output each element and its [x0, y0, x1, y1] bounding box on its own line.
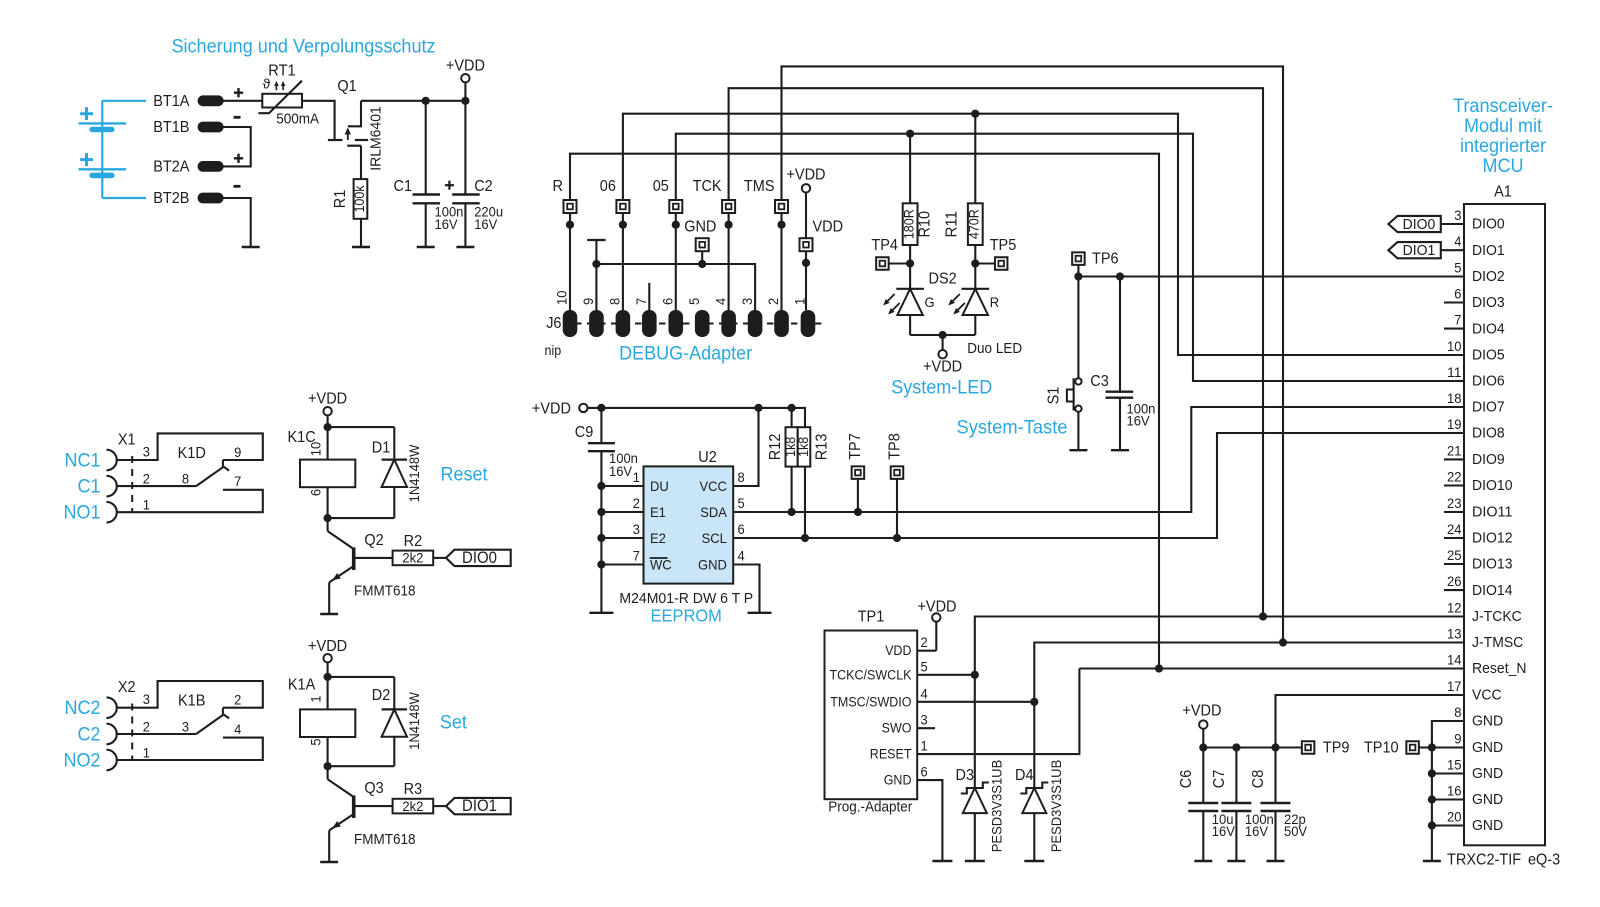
svg-text:J-TCKC: J-TCKC: [1472, 608, 1522, 625]
svg-text:E2: E2: [650, 530, 666, 546]
svg-text:4: 4: [738, 548, 745, 564]
svg-text:1N4148W: 1N4148W: [406, 444, 422, 503]
svg-text:06: 06: [600, 178, 616, 195]
svg-text:integrierter: integrierter: [1460, 135, 1546, 157]
svg-text:DS2: DS2: [929, 271, 957, 288]
svg-text:4: 4: [712, 298, 728, 305]
svg-text:GND: GND: [1472, 817, 1503, 834]
svg-text:NO2: NO2: [64, 750, 101, 772]
svg-text:NC2: NC2: [65, 697, 101, 719]
svg-text:DU: DU: [650, 478, 669, 494]
svg-text:Reset_N: Reset_N: [1472, 660, 1527, 677]
svg-text:Reset: Reset: [441, 464, 489, 486]
svg-text:E1: E1: [650, 504, 666, 520]
svg-text:1: 1: [633, 469, 640, 485]
svg-text:R13: R13: [814, 433, 831, 460]
svg-text:BT1B: BT1B: [153, 119, 189, 136]
svg-text:TP10: TP10: [1364, 740, 1399, 757]
svg-text:R: R: [553, 178, 564, 195]
svg-text:16V: 16V: [1127, 413, 1151, 429]
svg-text:R: R: [990, 294, 999, 310]
svg-text:TP6: TP6: [1092, 250, 1119, 267]
svg-text:ϑ: ϑ: [263, 76, 271, 92]
svg-text:16V: 16V: [474, 216, 498, 232]
svg-text:3: 3: [739, 298, 755, 305]
svg-text:R3: R3: [404, 781, 423, 798]
svg-text:6: 6: [308, 489, 324, 496]
svg-text:5: 5: [738, 495, 745, 511]
svg-text:U2: U2: [698, 449, 717, 466]
svg-text:2: 2: [921, 634, 928, 650]
svg-text:7: 7: [633, 548, 640, 564]
svg-text:MCU: MCU: [1483, 155, 1524, 177]
svg-text:GND: GND: [1472, 713, 1503, 730]
svg-text:3: 3: [1454, 207, 1461, 223]
svg-text:05: 05: [653, 178, 669, 195]
svg-text:1: 1: [921, 738, 928, 754]
svg-text:22: 22: [1447, 469, 1462, 485]
svg-text:2: 2: [234, 692, 241, 708]
svg-text:5: 5: [686, 298, 702, 305]
svg-text:TP5: TP5: [990, 237, 1017, 254]
svg-text:1: 1: [143, 497, 150, 513]
svg-text:470R: 470R: [967, 209, 982, 239]
svg-text:NC1: NC1: [65, 450, 101, 472]
svg-text:C2: C2: [474, 178, 493, 195]
svg-text:A1: A1: [1494, 184, 1512, 201]
svg-text:Q2: Q2: [364, 532, 383, 549]
svg-text:Sicherung und Verpolungsschutz: Sicherung und Verpolungsschutz: [171, 36, 435, 58]
svg-text:S1: S1: [1046, 387, 1063, 405]
svg-text:+VDD: +VDD: [308, 390, 347, 407]
svg-text:TCK: TCK: [693, 178, 722, 195]
svg-text:+VDD: +VDD: [532, 400, 571, 417]
svg-text:TP8: TP8: [887, 433, 904, 460]
svg-text:10: 10: [1447, 338, 1462, 354]
svg-text:16V: 16V: [1245, 823, 1269, 839]
svg-text:WC: WC: [650, 557, 672, 573]
svg-text:System-Taste: System-Taste: [957, 417, 1068, 439]
svg-text:GND: GND: [1472, 765, 1503, 782]
svg-text:DIO0: DIO0: [462, 549, 497, 567]
svg-text:Set: Set: [440, 712, 468, 734]
svg-text:Duo LED: Duo LED: [967, 341, 1022, 357]
svg-text:19: 19: [1447, 416, 1462, 432]
svg-text:BT1A: BT1A: [153, 93, 190, 110]
svg-text:18: 18: [1447, 390, 1462, 406]
svg-text:Q1: Q1: [337, 78, 356, 95]
svg-text:100k: 100k: [352, 185, 367, 212]
svg-text:25: 25: [1447, 547, 1462, 563]
svg-text:D1: D1: [372, 440, 391, 457]
svg-text:26: 26: [1447, 573, 1462, 589]
svg-text:500mA: 500mA: [276, 112, 319, 128]
svg-text:GND: GND: [1472, 791, 1503, 808]
svg-text:2: 2: [765, 298, 781, 305]
svg-text:Q3: Q3: [364, 780, 384, 797]
svg-text:TMS: TMS: [744, 178, 775, 195]
svg-text:DIO5: DIO5: [1472, 347, 1505, 364]
svg-text:2: 2: [143, 471, 150, 487]
svg-text:14: 14: [1447, 652, 1462, 668]
svg-text:PESD3V3S1UB: PESD3V3S1UB: [988, 760, 1004, 853]
svg-text:DIO2: DIO2: [1472, 268, 1505, 285]
svg-text:5: 5: [1454, 260, 1461, 276]
svg-text:8: 8: [607, 298, 623, 305]
svg-text:R1: R1: [332, 190, 349, 209]
svg-text:M24M01-R DW 6 T P: M24M01-R DW 6 T P: [619, 590, 753, 607]
svg-text:TP4: TP4: [871, 237, 898, 254]
svg-text:eQ-3: eQ-3: [1528, 852, 1560, 869]
svg-text:D3: D3: [956, 767, 975, 784]
svg-text:3: 3: [143, 691, 150, 707]
svg-text:20: 20: [1447, 809, 1462, 825]
svg-text:1: 1: [143, 744, 150, 760]
svg-text:G: G: [925, 294, 935, 310]
svg-text:SCL: SCL: [702, 530, 727, 546]
svg-text:15: 15: [1447, 757, 1462, 773]
svg-text:TP9: TP9: [1323, 740, 1350, 757]
svg-text:DIO10: DIO10: [1472, 477, 1513, 494]
svg-text:1: 1: [308, 695, 324, 702]
svg-text:7: 7: [1454, 312, 1461, 328]
svg-text:+VDD: +VDD: [923, 359, 962, 376]
svg-text:EEPROM: EEPROM: [650, 606, 722, 626]
svg-text:DIO13: DIO13: [1472, 556, 1513, 573]
svg-text:21: 21: [1447, 442, 1462, 458]
svg-text:GND: GND: [1472, 739, 1503, 756]
svg-text:GND: GND: [884, 773, 912, 788]
svg-text:C1: C1: [394, 178, 413, 195]
svg-text:DIO4: DIO4: [1472, 320, 1505, 337]
svg-text:DIO0: DIO0: [1403, 216, 1436, 233]
svg-text:R11: R11: [944, 211, 961, 238]
svg-text:C8: C8: [1250, 770, 1267, 789]
svg-text:C1: C1: [78, 476, 101, 498]
svg-text:+VDD: +VDD: [308, 638, 347, 655]
svg-text:2: 2: [633, 495, 640, 511]
svg-text:3: 3: [182, 718, 189, 734]
svg-text:PESD3V3S1UB: PESD3V3S1UB: [1048, 760, 1064, 853]
svg-text:VCC: VCC: [700, 478, 727, 494]
svg-text:C3: C3: [1090, 373, 1109, 390]
svg-text:Prog.-Adapter: Prog.-Adapter: [828, 800, 912, 816]
svg-text:16: 16: [1447, 783, 1462, 799]
svg-text:2: 2: [143, 718, 150, 734]
svg-text:17: 17: [1447, 678, 1462, 694]
svg-text:VCC: VCC: [1472, 687, 1502, 704]
svg-text:DIO0: DIO0: [1472, 216, 1505, 233]
svg-text:NO1: NO1: [64, 502, 101, 524]
svg-text:BT2B: BT2B: [153, 190, 189, 207]
svg-text:X1: X1: [118, 432, 136, 449]
svg-text:K1B: K1B: [178, 693, 205, 710]
svg-text:DIO1: DIO1: [462, 797, 497, 815]
svg-text:R12: R12: [767, 434, 784, 461]
svg-text:6: 6: [659, 298, 675, 305]
svg-text:12: 12: [1447, 600, 1462, 616]
svg-text:DIO12: DIO12: [1472, 530, 1513, 547]
svg-text:TP7: TP7: [847, 433, 864, 460]
svg-text:J-TMSC: J-TMSC: [1472, 634, 1523, 651]
svg-text:R10: R10: [917, 211, 934, 238]
svg-text:System-LED: System-LED: [891, 377, 992, 399]
svg-text:VDD: VDD: [885, 643, 912, 658]
svg-text:D4: D4: [1015, 767, 1034, 784]
svg-text:TP1: TP1: [858, 609, 885, 626]
svg-text:+VDD: +VDD: [1182, 702, 1221, 719]
svg-text:4: 4: [921, 685, 928, 701]
svg-text:TCKC/SWCLK: TCKC/SWCLK: [830, 667, 912, 682]
svg-text:9: 9: [580, 298, 596, 305]
svg-text:3: 3: [633, 521, 640, 537]
svg-text:5: 5: [921, 658, 928, 674]
svg-text:DIO8: DIO8: [1472, 425, 1505, 442]
svg-text:BT2A: BT2A: [153, 158, 190, 175]
svg-text:16V: 16V: [1212, 823, 1236, 839]
svg-text:23: 23: [1447, 495, 1462, 511]
svg-text:K1D: K1D: [178, 445, 206, 462]
svg-text:GND: GND: [698, 557, 727, 573]
svg-text:DIO7: DIO7: [1472, 399, 1505, 416]
svg-text:DIO11: DIO11: [1472, 504, 1513, 521]
svg-text:RESET: RESET: [870, 747, 912, 762]
svg-text:7: 7: [633, 298, 649, 305]
svg-text:FMMT618: FMMT618: [354, 584, 416, 600]
svg-text:2k2: 2k2: [402, 550, 423, 566]
svg-text:8: 8: [1454, 704, 1461, 720]
svg-text:DIO3: DIO3: [1472, 294, 1505, 311]
svg-text:8: 8: [182, 471, 189, 487]
svg-text:TRXC2-TIF: TRXC2-TIF: [1447, 852, 1521, 869]
svg-text:C2: C2: [78, 724, 101, 746]
svg-text:C6: C6: [1178, 770, 1195, 789]
svg-text:J6: J6: [546, 315, 562, 332]
svg-text:5: 5: [308, 738, 324, 745]
svg-text:13: 13: [1447, 626, 1462, 642]
svg-text:16V: 16V: [435, 216, 459, 232]
svg-text:nip: nip: [545, 343, 562, 358]
svg-text:+VDD: +VDD: [786, 167, 825, 184]
svg-text:10: 10: [554, 290, 570, 305]
svg-text:X2: X2: [118, 679, 136, 696]
svg-text:9: 9: [1454, 731, 1461, 747]
svg-text:DEBUG-Adapter: DEBUG-Adapter: [619, 343, 753, 365]
svg-text:DIO14: DIO14: [1472, 582, 1513, 599]
svg-text:R2: R2: [404, 533, 423, 550]
svg-text:RT1: RT1: [268, 63, 295, 80]
svg-text:SWO: SWO: [882, 721, 912, 736]
svg-text:VDD: VDD: [813, 219, 844, 236]
svg-text:DIO9: DIO9: [1472, 451, 1505, 468]
svg-text:2k2: 2k2: [402, 798, 423, 814]
svg-text:FMMT618: FMMT618: [354, 832, 416, 848]
svg-text:24: 24: [1447, 521, 1462, 537]
svg-text:C9: C9: [575, 424, 594, 441]
svg-text:Transceiver-: Transceiver-: [1453, 95, 1553, 117]
svg-text:TMSC/SWDIO: TMSC/SWDIO: [830, 694, 911, 709]
svg-text:16V: 16V: [609, 463, 633, 479]
svg-text:K1A: K1A: [288, 677, 316, 694]
svg-text:50V: 50V: [1284, 823, 1308, 839]
svg-text:C7: C7: [1211, 770, 1228, 789]
svg-text:9: 9: [234, 444, 241, 460]
svg-text:3: 3: [143, 444, 150, 460]
svg-text:6: 6: [738, 521, 745, 537]
svg-text:1k8: 1k8: [796, 437, 811, 457]
svg-text:8: 8: [738, 469, 745, 485]
svg-text:4: 4: [234, 721, 241, 737]
svg-text:1N4148W: 1N4148W: [406, 691, 422, 750]
svg-text:DIO1: DIO1: [1472, 242, 1505, 259]
svg-text:GND: GND: [684, 219, 716, 236]
svg-text:4: 4: [1454, 233, 1461, 249]
svg-text:6: 6: [921, 764, 928, 780]
svg-text:DIO1: DIO1: [1403, 242, 1436, 259]
svg-text:11: 11: [1447, 364, 1462, 380]
svg-text:DIO6: DIO6: [1472, 373, 1505, 390]
svg-text:6: 6: [1454, 286, 1461, 302]
svg-text:D2: D2: [372, 687, 391, 704]
svg-text:180R: 180R: [902, 209, 917, 239]
svg-text:SDA: SDA: [700, 504, 727, 520]
svg-text:7: 7: [234, 473, 241, 489]
svg-text:IRLM6401: IRLM6401: [368, 106, 385, 171]
svg-text:3: 3: [921, 712, 928, 728]
svg-text:10: 10: [308, 442, 324, 457]
svg-text:Modul mit: Modul mit: [1464, 115, 1543, 137]
svg-text:+VDD: +VDD: [446, 57, 485, 74]
